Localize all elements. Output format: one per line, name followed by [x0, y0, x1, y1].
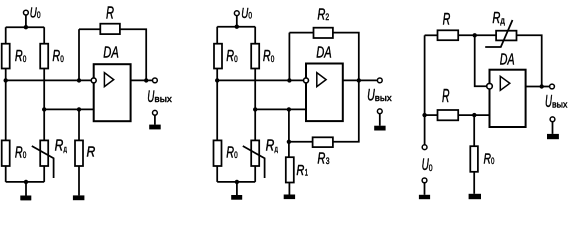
thermistor Rd strike — [32, 146, 54, 178]
ground bar R0 — [469, 194, 481, 199]
terminal Uout — [153, 78, 158, 83]
label Uout — [545, 91, 568, 111]
node R tap — [77, 107, 81, 111]
wire R top right — [458, 34, 496, 36]
wire output — [131, 79, 153, 81]
resistor R3 — [313, 137, 333, 147]
wire U0 stem — [25, 15, 27, 27]
svg-text:DA: DA — [103, 44, 119, 61]
wire R2 right — [333, 33, 359, 81]
wire ground stem bridge — [236, 182, 238, 195]
ground bar bridge — [231, 195, 242, 200]
svg-text:R: R — [296, 163, 304, 179]
op-amp inverting bubble — [487, 83, 493, 89]
svg-text:0: 0 — [429, 163, 433, 174]
node A — [473, 33, 477, 37]
wire U0 stem — [236, 16, 238, 27]
wire feedback R left — [79, 28, 100, 30]
node R1 tap — [287, 107, 291, 111]
wire R bottom column — [78, 109, 80, 140]
node inverting tap left — [3, 78, 7, 82]
svg-text:0: 0 — [37, 10, 41, 20]
node feedback tap — [77, 78, 81, 82]
node B — [472, 113, 476, 117]
terminal common input — [422, 178, 427, 183]
svg-text:д: д — [275, 143, 278, 153]
wire R3 right — [333, 80, 359, 141]
wire bridge bottom left — [216, 166, 218, 182]
label R0 top-right — [263, 48, 274, 65]
thermistor Rd strike — [485, 20, 512, 47]
svg-text:R: R — [443, 10, 451, 29]
wire Rd right — [517, 35, 542, 86]
label R0 bottom-left — [15, 144, 26, 161]
svg-text:DA: DA — [500, 51, 515, 68]
wire output — [343, 79, 378, 81]
svg-text:0: 0 — [271, 54, 275, 65]
wire common stem — [379, 114, 381, 126]
resistor R0 top-right — [40, 44, 48, 69]
wire bridge top — [6, 26, 45, 28]
wire R mid right — [458, 114, 489, 116]
wire left column upper — [216, 27, 218, 44]
label Rd — [266, 138, 278, 155]
wire noninverting input — [255, 108, 306, 110]
wire inverting input — [217, 79, 306, 81]
resistor R0 bottom-left — [2, 140, 10, 166]
op-amp inverting bubble — [91, 78, 96, 83]
node left column tap — [422, 113, 426, 117]
thermistor Rd strike — [243, 146, 265, 178]
node bridge top — [235, 25, 239, 29]
svg-text:R: R — [52, 48, 60, 65]
wire R top left — [425, 34, 438, 36]
ground bar R1 — [284, 195, 295, 200]
wire noninverting input — [44, 108, 93, 110]
svg-text:0: 0 — [23, 54, 27, 65]
ground bar common output — [547, 134, 559, 139]
label R0 — [484, 150, 495, 167]
thermistor Rd body — [251, 140, 259, 166]
svg-text:1: 1 — [305, 167, 308, 177]
label R0 top-left — [15, 48, 26, 65]
label Uout — [147, 87, 172, 106]
wire R0 upper — [473, 115, 475, 146]
svg-text:R: R — [263, 48, 271, 65]
terminal Uout — [377, 78, 382, 83]
ground bar common input — [419, 195, 430, 199]
ground bar R bottom — [73, 195, 85, 200]
wire R0 to ground — [473, 172, 475, 194]
label R mid — [442, 86, 450, 106]
node inverting tap left — [215, 78, 219, 82]
wire R mid left — [425, 114, 438, 116]
wire left column upper — [5, 27, 7, 44]
node bridge bottom — [235, 180, 239, 184]
ground bar common output — [374, 126, 385, 131]
terminal U0 — [234, 11, 239, 16]
resistor R0 top-left — [214, 44, 222, 69]
op-amp inverting bubble — [304, 78, 309, 83]
svg-text:0: 0 — [60, 54, 64, 65]
label U0 — [422, 155, 433, 174]
wire feedback R right — [120, 29, 146, 80]
resistor R1 — [286, 157, 294, 182]
resistor R top — [438, 30, 459, 40]
terminal common output — [377, 109, 382, 114]
op-amp U2 body — [306, 64, 343, 122]
label Rd top — [492, 10, 505, 27]
wire left column middle — [216, 69, 218, 141]
wire common input stem — [424, 183, 426, 195]
svg-text:R: R — [266, 138, 275, 155]
node output — [540, 84, 544, 88]
ground bar bridge — [20, 196, 31, 201]
thermistor Rd body — [40, 140, 48, 166]
label R feedback — [106, 2, 114, 22]
label Uout — [367, 85, 392, 104]
node feedback tap — [287, 78, 291, 82]
wire output — [526, 86, 550, 88]
svg-text:R: R — [15, 48, 23, 65]
op-amp U3 body — [490, 70, 526, 127]
svg-text:0: 0 — [234, 150, 238, 161]
resistor R mid — [438, 110, 459, 120]
label R3 — [317, 151, 329, 168]
svg-text:R: R — [226, 48, 234, 65]
resistor R0 top-right — [251, 44, 259, 69]
label R0 top-right — [52, 48, 63, 65]
svg-text:0: 0 — [248, 11, 252, 21]
svg-text:0: 0 — [491, 156, 494, 166]
node output — [144, 78, 148, 82]
svg-text:R: R — [15, 144, 23, 161]
label R top — [443, 10, 451, 29]
label R bottom — [87, 145, 96, 161]
wire common output stem — [552, 122, 554, 134]
node bridge mid — [42, 107, 46, 111]
wire feedback vertical — [78, 29, 80, 80]
wire bridge bottom right — [43, 166, 45, 182]
label R0 top-left — [226, 48, 237, 65]
svg-text:вых: вых — [154, 94, 172, 105]
resistor R0 bottom-left — [214, 140, 222, 166]
svg-text:3: 3 — [326, 156, 330, 167]
wire bridge bottom — [217, 181, 255, 183]
wire R3 left — [289, 141, 313, 143]
node bridge mid — [253, 107, 257, 111]
ground bar common output — [149, 125, 161, 130]
terminal U0 — [24, 10, 29, 15]
wire R1 upper — [288, 109, 290, 157]
wire inverting input — [6, 79, 94, 81]
wire R1 to ground — [288, 183, 290, 195]
svg-text:вых: вых — [375, 93, 392, 104]
resistor R feedback — [100, 24, 120, 34]
svg-text:R: R — [442, 86, 450, 106]
wire right bridge column middle — [43, 69, 45, 141]
wire right bridge column upper — [254, 27, 256, 44]
label U0 — [30, 5, 41, 21]
wire left column middle — [5, 69, 7, 141]
wire feedback vertical — [288, 33, 290, 81]
svg-text:R: R — [317, 151, 325, 168]
svg-text:R: R — [484, 150, 492, 167]
svg-text:0: 0 — [23, 150, 27, 161]
wire ground stem bridge — [25, 182, 27, 196]
resistor R bottom — [75, 140, 83, 166]
op-amp triangle — [500, 76, 510, 90]
resistor R0 — [470, 146, 478, 172]
label R0 bottom-left — [226, 144, 237, 161]
terminal common output — [550, 117, 555, 122]
op-amp U1 body — [94, 64, 131, 121]
label DA — [500, 51, 515, 68]
label DA — [103, 44, 119, 61]
node bridge top — [24, 25, 28, 29]
svg-text:R: R — [55, 138, 64, 155]
wire R2 left — [289, 32, 313, 34]
wire R bottom to ground — [78, 166, 80, 195]
svg-text:R: R — [87, 145, 96, 161]
svg-text:д: д — [64, 143, 67, 153]
svg-text:вых: вых — [552, 99, 568, 110]
terminal Uout — [550, 84, 555, 89]
node R3 tap — [287, 140, 291, 144]
wire left vertical — [424, 35, 426, 145]
resistor R2 — [314, 28, 333, 38]
svg-text:R: R — [106, 2, 114, 22]
wire right bridge column upper — [43, 27, 45, 44]
wire inverting branch — [475, 35, 490, 86]
svg-text:R: R — [226, 144, 234, 161]
terminal common output — [153, 110, 158, 115]
svg-text:R: R — [317, 6, 325, 23]
resistor R0 top-left — [2, 44, 10, 69]
thermistor Rd body — [496, 31, 516, 41]
terminal U0 — [422, 145, 427, 150]
wire common stem — [154, 115, 156, 124]
label Rd — [55, 138, 67, 155]
label U0 — [241, 6, 252, 22]
node output — [357, 78, 361, 82]
op-amp triangle — [317, 73, 326, 87]
wire bridge bottom — [6, 181, 45, 183]
svg-text:DA: DA — [316, 45, 332, 62]
label DA — [316, 45, 332, 62]
wire bridge bottom left — [5, 166, 7, 182]
svg-text:д: д — [500, 16, 505, 27]
wire bridge top — [217, 26, 255, 28]
wire right bridge column middle — [254, 69, 256, 141]
label R1 — [296, 163, 308, 179]
node bridge bottom — [24, 180, 28, 184]
op-amp triangle — [104, 73, 113, 87]
wire bridge bottom right — [254, 166, 256, 182]
svg-text:2: 2 — [325, 12, 329, 23]
label R2 — [317, 6, 329, 23]
svg-text:0: 0 — [234, 54, 238, 65]
